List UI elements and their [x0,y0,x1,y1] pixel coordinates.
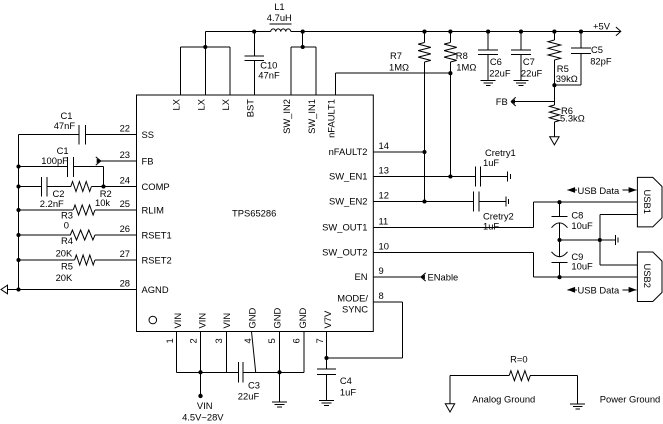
svg-text:1uF: 1uF [340,387,356,398]
capacitor C5 82pF [571,32,612,86]
wire left bus vertical [18,135,20,290]
svg-text:4: 4 [242,338,253,343]
ground under GND bus [272,372,287,407]
svg-text:Power Ground: Power Ground [600,393,660,404]
pin 26 RSET1 label [120,223,172,241]
svg-text:SW_OUT1: SW_OUT1 [322,222,367,233]
svg-text:20K: 20K [56,248,73,259]
wire SW_OUT1 to USB1 [373,202,637,227]
svg-text:GND: GND [247,307,258,328]
svg-text:MODE/: MODE/ [337,292,368,303]
capacitor C4 1uF [317,358,357,401]
pin 27 RSET2 label [120,248,172,266]
pin 11 SW_OUT1 label [322,216,388,233]
wire LX bus [181,46,230,48]
pin SW_IN1 stub [306,47,317,134]
resistor R6 5.3kOhm [549,105,584,137]
svg-text:COMP: COMP [142,181,170,192]
svg-text:USB1: USB1 [642,190,653,215]
svg-text:22uF: 22uF [489,68,511,79]
wire pin14 nFAULT2 to R7 [373,151,424,153]
capacitor C1 47nF on SS [19,110,137,144]
capacitor C7 22uF [511,32,543,81]
svg-text:USB Data: USB Data [578,185,620,196]
svg-text:SS: SS [142,129,155,140]
pin 6 GND stub [291,307,309,372]
svg-text:26: 26 [120,223,130,234]
connector USB1 [637,177,662,227]
wire L1 right to +5V rail [291,31,621,33]
svg-text:22uF: 22uF [238,391,260,402]
svg-text:SW_EN1: SW_EN1 [329,171,368,182]
svg-text:R7: R7 [390,50,402,61]
svg-text:SW_IN2: SW_IN2 [281,99,292,134]
svg-text:28: 28 [120,277,130,288]
wire switch node horizontal [205,31,270,33]
pin LX stub [171,47,182,110]
svg-text:USB Data: USB Data [578,285,620,296]
svg-text:10k: 10k [95,197,110,208]
svg-text:C8: C8 [571,210,583,221]
svg-text:1: 1 [164,338,175,343]
svg-text:100pF: 100pF [41,155,68,166]
ground stub Cretry1 [508,172,511,182]
pin LX stub [220,47,231,110]
svg-text:C6: C6 [490,56,502,67]
capacitor C8 10uF [552,202,594,240]
pin nFAULT1 stub [325,73,336,138]
resistor R=0 ground bridge [450,354,578,405]
IC U1 TPS65286 body [137,95,374,332]
pin 12 SW_EN2 label [329,190,389,207]
svg-text:FB: FB [496,96,508,107]
resistor R5 39kOhm [548,32,578,105]
svg-text:39kΩ: 39kΩ [556,73,578,84]
svg-text:6: 6 [291,338,302,343]
svg-text:ENable: ENable [428,272,459,283]
node VIN input [182,372,224,422]
svg-text:20K: 20K [56,272,73,283]
inductor L1 4.7uH [267,1,292,32]
svg-text:VIN: VIN [221,313,232,329]
svg-text:BST: BST [244,99,255,118]
svg-text:22: 22 [120,123,130,134]
svg-text:10: 10 [379,241,389,252]
pin BST stub [244,60,255,117]
analog ground flag bottom [445,404,454,412]
svg-text:SYNC: SYNC [342,303,368,314]
capacitor C10 47nF [245,32,280,81]
svg-text:Analog Ground: Analog Ground [472,393,535,404]
svg-text:R8: R8 [456,50,468,61]
node USB Data top [567,185,637,196]
connector USB2 [637,252,662,302]
analog ground flag left [1,285,8,294]
svg-text:13: 13 [379,165,389,176]
svg-text:R4: R4 [61,235,73,246]
svg-text:FB: FB [142,156,154,167]
svg-text:AGND: AGND [142,284,169,295]
pin 3 VIN stub [213,313,232,372]
pin 10 SW_OUT2 label [322,241,389,258]
pin 8 MODE/ label [337,290,383,314]
svg-text:L1: L1 [274,1,284,12]
svg-text:RSET2: RSET2 [142,255,172,266]
svg-text:LX: LX [195,98,206,110]
ground under C7 [514,81,529,86]
svg-text:SW_EN2: SW_EN2 [329,196,368,207]
svg-text:V7V: V7V [322,310,333,328]
wire AGND line [8,289,137,291]
pin 2 VIN stub [188,313,208,372]
resistor R8 1MOhm [444,32,476,177]
svg-text:nFAULT2: nFAULT2 [329,146,368,157]
svg-text:C4: C4 [340,375,352,386]
svg-text:47nF: 47nF [54,120,76,131]
svg-text:0: 0 [64,220,69,231]
svg-text:RSET1: RSET1 [142,230,172,241]
pin 5 GND stub [266,307,283,372]
svg-text:24: 24 [120,174,130,185]
node ENable arrow on EN pin [373,272,458,283]
svg-text:C3: C3 [248,380,260,391]
svg-text:C7: C7 [523,56,535,67]
svg-text:VIN: VIN [172,313,183,329]
resistor R3 0 on RLIM [19,205,137,231]
svg-text:1MΩ: 1MΩ [389,62,409,73]
node FB net arrow [496,96,554,107]
ground under C4 [319,401,334,406]
svg-text:2: 2 [188,338,199,343]
wire nFAULT1 to R8 [335,72,450,74]
node +5V arrow [593,21,621,36]
svg-text:8: 8 [379,290,384,301]
svg-text:9: 9 [379,265,384,276]
svg-text:3: 3 [213,338,224,343]
pin LX stub [195,47,206,110]
svg-text:GND: GND [297,307,308,328]
capacitor C6 22uF [478,32,511,81]
wire mid ground node [560,239,616,241]
ground under C6 [481,81,496,86]
svg-text:22uF: 22uF [521,68,543,79]
svg-text:10uF: 10uF [571,261,593,272]
capacitor C2 2.2nF [19,177,71,209]
resistor R4 20K on RSET1 [19,230,137,259]
svg-text:7: 7 [314,338,325,343]
svg-text:1uF: 1uF [483,157,499,168]
svg-text:82pF: 82pF [590,56,612,67]
pin 7 V7V stub [314,310,333,358]
wire MODE/SYNC loop to V7V [327,302,403,358]
pin 23 FB label [120,149,154,167]
pin 4 GND stub [242,307,258,372]
svg-text:SW_OUT2: SW_OUT2 [322,247,367,258]
svg-text:USB2: USB2 [642,264,653,289]
wire SW_IN riser [302,32,304,47]
svg-text:R5: R5 [61,261,73,272]
svg-text:EN: EN [354,271,367,282]
capacitor C9 10uF [552,240,594,277]
svg-text:SW_IN1: SW_IN1 [306,99,317,134]
svg-text:27: 27 [120,248,130,259]
pin 14 nFAULT2 label [329,140,389,157]
svg-text:14: 14 [379,140,389,151]
svg-text:+5V: +5V [593,21,611,32]
wire C5 bottom to R5/R6 junction [554,84,581,86]
resistor R5 20K on RSET2 [19,255,137,283]
svg-text:VIN: VIN [196,313,207,329]
ground stub Cretry2 [506,197,509,207]
svg-text:LX: LX [171,98,182,110]
svg-text:5.3kΩ: 5.3kΩ [560,113,585,124]
resistor R7 1MOhm [389,32,431,202]
svg-text:TPS65286: TPS65286 [232,208,276,219]
pin 13 SW_EN1 label [329,165,389,182]
wire LX riser to switch node [204,32,206,47]
svg-text:C5: C5 [591,44,603,55]
pin 9 EN label [354,265,383,282]
svg-text:47nF: 47nF [258,69,280,80]
capacitor Cretry2 1uF on SW_EN2 [373,192,513,232]
capacitor C3 22uF [177,362,304,402]
wire SW_OUT2 to USB2 [373,253,637,278]
svg-text:VIN: VIN [197,400,213,411]
wire USB1 ground return [600,215,638,265]
svg-text:10uF: 10uF [571,220,593,231]
svg-text:4.7uH: 4.7uH [267,12,292,23]
ground stub mid node [616,235,619,245]
node USB Data bottom [567,285,637,296]
svg-text:GND: GND [272,307,283,328]
wire SW_IN bus [291,46,316,48]
resistor R2 10k [71,182,137,209]
svg-text:25: 25 [120,198,130,209]
pin 1 VIN stub [164,313,183,372]
svg-text:nFAULT1: nFAULT1 [325,99,336,138]
capacitor Cretry1 1uF on SW_EN1 [373,147,515,187]
svg-text:R=0: R=0 [510,354,527,365]
svg-text:2.2nF: 2.2nF [40,198,64,209]
pin 25 RLIM label [120,198,165,216]
power ground symbol [570,404,585,409]
svg-text:1MΩ: 1MΩ [456,62,476,73]
analog ground flag under R6 [550,137,559,145]
svg-text:5: 5 [266,338,277,343]
svg-text:12: 12 [379,190,389,201]
pin 28 AGND label [120,277,169,295]
svg-text:23: 23 [120,149,130,160]
svg-text:11: 11 [379,216,389,227]
node FB pin stub arrow [96,157,137,165]
pin 24 COMP label [120,174,170,192]
svg-text:1uF: 1uF [483,221,499,232]
capacitor C1 100pF [19,145,104,187]
svg-text:4.5V~28V: 4.5V~28V [182,412,224,423]
svg-text:LX: LX [220,98,231,110]
pin 22 SS label [120,123,154,141]
svg-text:RLIM: RLIM [142,205,165,216]
pin SW_IN2 stub [281,47,292,134]
